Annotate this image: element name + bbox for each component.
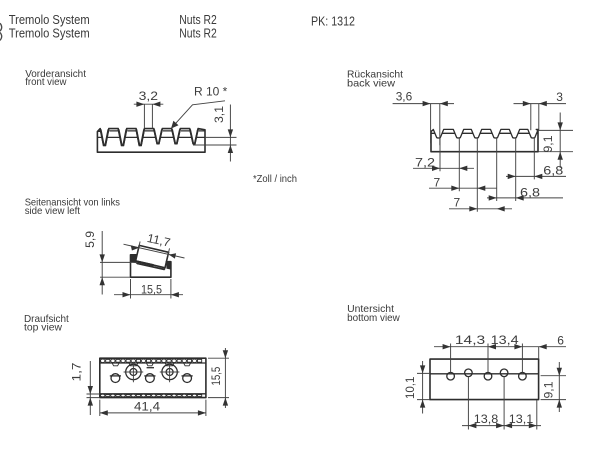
lock screw 2 inner circle: [166, 369, 173, 376]
svg-text:7: 7: [454, 195, 461, 209]
svg-text:6: 6: [557, 334, 564, 348]
dimension 9,1 extension lines (back view): [539, 130, 574, 151]
dimension 10,1 arrows: [420, 365, 425, 407]
string hole 1: [111, 374, 120, 383]
svg-text:*Zoll / inch: *Zoll / inch: [253, 174, 297, 185]
side view clamp lower edge lines: [137, 264, 165, 270]
dimension 10,1 dimension line: [422, 361, 424, 414]
svg-text:5,9: 5,9: [83, 231, 97, 248]
bottom view internal step line: [430, 373, 539, 375]
dimension 15,5 dimension line (top view): [224, 348, 226, 408]
svg-text:bottom view: bottom view: [347, 313, 400, 324]
svg-text:13,1: 13,1: [509, 412, 534, 426]
side view base right lip (filled): [166, 262, 171, 270]
dimension arrows top row: [443, 344, 547, 349]
svg-text:41,4: 41,4: [134, 400, 160, 414]
dimension 11,7 extension ticks: [138, 242, 169, 257]
clipped glyph at left page edge: [0, 23, 2, 40]
side view base channel outline: [131, 255, 171, 277]
string hole b4: [500, 369, 508, 377]
svg-text:top view: top view: [24, 322, 62, 333]
dimension 7 (second row) dimension line: [429, 187, 497, 189]
dimension 9,1 dimension line: [559, 113, 561, 169]
svg-text:3,6: 3,6: [396, 90, 413, 104]
dimension 15,5 dimension line: [114, 294, 183, 296]
svg-text:14,3: 14,3: [455, 333, 486, 347]
dimension 15,5 arrows (top view): [223, 350, 228, 405]
side view base seat line: [136, 263, 165, 269]
svg-text:7,2: 7,2: [415, 155, 435, 169]
extension line for 6 at right edge: [538, 347, 540, 359]
dimension 9,1 extension lines (bottom view): [541, 376, 566, 400]
dimension 1,7 extension lines: [87, 394, 100, 398]
dimension 6,8 (upper) dimension line: [506, 175, 566, 177]
dimension 3 arrows: [523, 101, 547, 106]
top view front serration beads: [101, 359, 202, 363]
dimension 9,1 arrows: [558, 122, 563, 159]
svg-text:6,8: 6,8: [520, 185, 540, 199]
back view nut body outline: [431, 131, 538, 152]
svg-text:15,5: 15,5: [141, 282, 162, 296]
radius leader line with arrow: [172, 101, 225, 127]
svg-text:Nuts R2: Nuts R2: [179, 25, 217, 40]
lock screw 1 crosshair: [124, 362, 144, 382]
dimension 5,9 extension lines: [100, 262, 136, 277]
dimension 10,1 extension lines: [417, 373, 430, 399]
svg-text:7: 7: [434, 175, 441, 189]
dimension 6,8 (lower) dimension line: [487, 197, 563, 199]
top view body rectangle: [100, 358, 206, 397]
dimension 5,9 arrows: [100, 254, 105, 285]
front view string groove V slots (thick): [101, 129, 109, 145]
lock screw 2 outer circle: [162, 364, 177, 379]
lock screw 2 crosshair: [160, 362, 180, 382]
svg-text:1,7: 1,7: [69, 362, 83, 381]
svg-text:15,5: 15,5: [209, 366, 223, 385]
side view clamp contact thick edge: [136, 261, 154, 265]
top view clamp pads: [112, 363, 191, 366]
front view back edges of flat tops: [97, 130, 205, 132]
svg-text:PK: 1312: PK: 1312: [311, 14, 355, 29]
front view rear top edge horizontal line: [97, 136, 205, 138]
front view nut body outline with serrated top profile: [97, 129, 205, 153]
dimension 7,2 dimension line: [413, 167, 474, 169]
dimension 3,1 dimension line: [229, 105, 231, 162]
side view base left lip (filled): [131, 255, 137, 263]
svg-text:R 10 *: R 10 *: [194, 85, 228, 99]
dimension 11,7 dimension line (slanted): [124, 244, 185, 258]
dimension 15,5 extension lines (side view): [131, 279, 171, 299]
svg-text:3: 3: [556, 90, 563, 104]
stems up from holes 1,3,5: [451, 344, 523, 373]
dimension 3,2 arrows: [136, 102, 160, 107]
svg-text:9,1: 9,1: [541, 135, 555, 152]
svg-text:9,1: 9,1: [541, 381, 555, 398]
top view rear serration band line: [100, 393, 206, 395]
top view front serration band line: [100, 362, 206, 364]
top view rear serration beads: [101, 394, 202, 397]
string hole b5: [519, 372, 527, 380]
svg-text:3,1: 3,1: [212, 106, 226, 123]
dimension 41,4 arrows: [100, 410, 206, 415]
bottom view body rectangle: [430, 359, 539, 400]
dimension 1,7 dimension line: [89, 361, 91, 415]
svg-text:Tremolo System: Tremolo System: [9, 25, 90, 40]
lock screw 1 outer circle: [126, 364, 141, 379]
dimension 13,8 / 13,1 dimension line: [462, 425, 541, 427]
svg-text:side view left: side view left: [25, 206, 80, 217]
dimension 3,6 extension lines: [431, 104, 440, 146]
string hole b1: [447, 372, 455, 380]
svg-text:3,2: 3,2: [139, 89, 159, 103]
back view top face rear edge line: [431, 132, 538, 134]
stems down from holes 2,4 and right reference: [468, 377, 536, 430]
back view serrated top profile: [431, 129, 538, 138]
dimension 3,1 extension lines: [193, 137, 237, 145]
dimension 3,6 dimension line: [393, 103, 454, 105]
string hole 3: [183, 374, 192, 383]
dimension 15,5 arrows: [123, 292, 179, 297]
dimension 3 extension lines: [531, 104, 539, 131]
svg-text:front view: front view: [25, 77, 67, 88]
dimension 3,2 dimension line: [134, 103, 164, 105]
dimension 5,9 dimension line: [101, 231, 103, 295]
dimension 41,4 extension lines: [100, 400, 206, 416]
string hole b2: [465, 369, 473, 377]
dimension 3,2 extension lines: [144, 105, 152, 129]
dimension 14,3 / 13,4 / 6 dimension line: [434, 346, 566, 348]
dimension 3,1 arrows: [228, 129, 233, 153]
dimension 15,5 extension lines (top view): [208, 358, 229, 397]
dimension 3,6 arrows: [423, 101, 448, 106]
svg-text:13,4: 13,4: [491, 333, 519, 347]
side view tilted clamp block: [136, 245, 169, 267]
dimension 7 (third row) dimension line: [449, 208, 512, 210]
dimension arrows bottom row: [468, 423, 536, 428]
dimension 11,7 arrows: [131, 245, 140, 250]
string hole b3: [484, 372, 492, 380]
svg-text:10,1: 10,1: [403, 376, 417, 399]
svg-text:back view: back view: [347, 79, 396, 90]
dimension 1,7 arrows: [88, 386, 93, 406]
svg-text:6,8: 6,8: [543, 164, 563, 178]
groove center extension lines through body: [440, 137, 534, 212]
lock screw 1 inner circle: [130, 369, 137, 376]
string hole 2: [146, 374, 155, 383]
svg-text:13,8: 13,8: [474, 412, 499, 426]
dimension 9,1 dimension line (bottom view): [558, 362, 560, 412]
dimension 3 dimension line: [514, 103, 567, 105]
dimension 9,1 arrows (bottom view): [557, 368, 562, 408]
dimension 41,4 dimension line: [100, 412, 206, 414]
